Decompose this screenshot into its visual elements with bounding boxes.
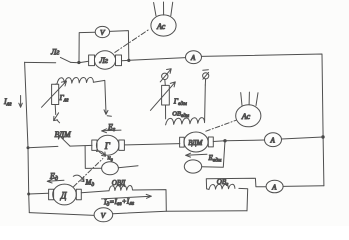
wire Гвдм to coil: [165, 105, 167, 119]
svg-text:Евдм: Евдм: [208, 154, 222, 163]
inductor ОВвдм: [166, 85, 206, 125]
wire A2 to right bus: [283, 185, 324, 188]
wire below Глг with end arrow: [54, 105, 60, 123]
terminal minus (excitation supply): [203, 70, 209, 85]
coupling ВДМ to Ас2 (shaft): [206, 120, 236, 131]
wire ОВг loop: [206, 178, 266, 211]
wire left bus: [25, 62, 30, 212]
svg-text:V: V: [100, 28, 106, 37]
ammeter A1: [186, 51, 202, 64]
wire top right and right bus: [202, 54, 324, 186]
machine Лг: [89, 51, 122, 69]
ammeter A2: [266, 180, 283, 193]
svg-text:ВДМ: ВДМ: [55, 130, 73, 139]
wire ВДМ to junction: [213, 140, 225, 143]
svg-text:A: A: [271, 183, 277, 191]
svg-text:ОВвдм: ОВвдм: [172, 111, 189, 119]
wire A3 to right bus: [282, 137, 323, 139]
svg-text:Ас: Ас: [156, 22, 166, 31]
exciter under Г (tachogenerator): [85, 146, 138, 175]
label Iлг with arrow: [3, 96, 22, 108]
wire V1 left lead: [79, 32, 95, 62]
svg-text:ОВг: ОВг: [217, 178, 229, 187]
svg-text:Iлг: Iлг: [3, 97, 12, 108]
inductor ОВД: [109, 179, 133, 191]
motor Д: [49, 184, 82, 205]
coupling Лг to Ас (shaft): [115, 29, 150, 52]
svg-text:ВДМ: ВДМ: [188, 139, 203, 147]
svg-text:Гвдм: Гвдм: [173, 96, 187, 107]
wire Лг to A1: [122, 58, 186, 61]
terminal plus (excitation supply): [160, 69, 171, 86]
node junction left bus / G branch: [27, 146, 30, 149]
label current formula with arrow: [102, 194, 152, 207]
label Ед with arrow: [47, 171, 64, 183]
rheostat Глг: [42, 81, 70, 107]
node junction ВДМ right: [223, 139, 226, 142]
node junction left bus / D branch: [27, 193, 30, 196]
inductor ОВг: [209, 178, 235, 189]
node junction switch / voltmeter tap: [77, 61, 80, 64]
wire end arrow (coil right lead): [104, 110, 111, 116]
node junction V1 right / armature wire: [127, 59, 130, 62]
exciter under ВДМ: [184, 160, 201, 173]
voltmeter V2: [94, 208, 113, 222]
svg-text:нг: нг: [108, 155, 113, 163]
coupling Д to Г (shaft): [74, 159, 103, 187]
switch Лг: [25, 48, 89, 63]
wire Д to ОВД: [81, 191, 109, 193]
node junction right bus / A3 wire: [321, 135, 324, 138]
svg-text:Лг: Лг: [50, 48, 60, 57]
svg-text:Г: Г: [104, 141, 111, 151]
svg-text:Мд: Мд: [85, 179, 95, 188]
motor Ас M2: [236, 92, 261, 127]
wire junction down to exciter ВДМ: [202, 141, 225, 167]
svg-text:Лг: Лг: [99, 56, 109, 65]
svg-text:Д: Д: [60, 191, 68, 201]
rheostat Гвдм: [150, 82, 187, 111]
generator Г: [92, 135, 125, 155]
wire ОВД to bottom: [133, 190, 167, 212]
svg-text:ОВД: ОВД: [112, 179, 126, 187]
wire bottom right: [113, 211, 247, 214]
wire V1 right lead: [110, 31, 129, 61]
svg-text:Глг: Глг: [59, 93, 70, 104]
inductor ОВлг (field coil of Лг): [56, 77, 106, 113]
wire junction to A3: [225, 139, 265, 142]
motor Ас M1: [151, 2, 176, 36]
wire bus to Д: [29, 192, 49, 195]
wire Г to ВДМ: [125, 144, 180, 145]
svg-text:A: A: [190, 54, 196, 62]
svg-text:V: V: [101, 211, 107, 220]
machine ВДМ (booster): [180, 132, 214, 152]
label Мд with arrow: [73, 175, 94, 188]
label Евдм with arrow: [186, 153, 222, 163]
voltmeter V1: [95, 26, 109, 37]
label нг with arrow: [97, 151, 113, 163]
switch ВДМ: [28, 130, 92, 148]
svg-text:A: A: [270, 137, 276, 145]
svg-text:Ег: Ег: [107, 122, 116, 132]
wire bottom left: [29, 213, 94, 216]
label Ег with arrow: [102, 122, 121, 132]
ammeter A3: [265, 133, 282, 147]
svg-text:Ас: Ас: [241, 112, 251, 121]
